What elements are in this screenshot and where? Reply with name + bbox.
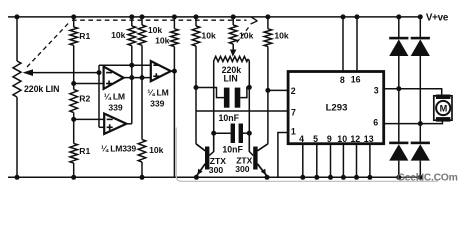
svg-text:220k LIN: 220k LIN [24,84,59,94]
wire node to R1 bottom [73,119,75,143]
node R1-R2 junction [71,81,76,86]
dashed gang link diagonal left [27,22,70,68]
transistor Q1 collector [196,144,205,151]
svg-text:10nF: 10nF [219,113,240,123]
wire D2 cathode lead [419,17,421,37]
node pin 9 ground junction [328,175,333,180]
wire R1R2 node to U1a noninverting input [74,83,104,85]
node col2 output row [140,75,145,80]
wire R1 to node [73,45,75,83]
node U1b output junction [172,69,177,74]
node wiper line junction [97,70,102,75]
node ground junction left pot [15,175,20,180]
node R2-R1 junction [71,117,76,122]
wire pin 5 ground lead [316,144,318,178]
wire pin 9 ground lead [330,144,332,178]
wire col6 top lead [267,17,269,29]
svg-text:10k: 10k [111,30,126,40]
svg-text:8: 8 [340,75,345,85]
wire D1 cathode lead [398,17,400,37]
resistor 10k col2 bottom [138,140,146,163]
wire pin6 row to motor [384,121,443,124]
wire U1c output to col1 [126,123,131,125]
wire col4 vertical [195,46,197,144]
wire col2 vertical [141,45,143,139]
wire col1 top lead [131,17,133,26]
potentiometer VR1 220k LIN body [13,61,21,97]
wire col6 vertical [267,47,269,144]
svg-text:339: 339 [108,102,123,112]
transistor Q1 emitter [196,164,205,178]
potentiometer VR1 wiper arrow [31,72,99,74]
wire D3 anode lead [398,161,400,178]
svg-text:2: 2 [291,86,296,96]
wire VR2 left end lead [213,59,216,152]
mid pot wiper arrow [230,50,236,57]
node top-rail junction left pot [15,14,20,19]
svg-text:300: 300 [209,165,224,175]
wire R2R1 node to U1c inverting input [74,118,105,120]
wire col3 top lead [173,17,175,29]
node pin6 diode junction [418,121,423,126]
svg-text:10k: 10k [149,145,164,155]
wire D1 anode lead [398,56,400,142]
node Q1 emitter ground junction [194,175,199,180]
svg-text:R1: R1 [79,146,90,156]
capacitor C2 right plate [239,124,243,144]
wire pin2 row [268,89,288,91]
dashed gang link horizontal [72,19,247,21]
capacitor C1 left plate [224,88,230,108]
diode D1 [389,37,408,40]
svg-text:R2: R2 [79,94,90,104]
svg-text:339: 339 [150,98,165,108]
dashed gang link end arrow [251,17,258,24]
svg-text:V+ve: V+ve [426,12,449,23]
op-amp U1a quarter LM339 [104,67,124,89]
diode D4 [411,142,430,145]
svg-text:12: 12 [350,134,360,144]
transistor Q1 base bar [205,147,209,170]
motor M1 body [434,96,452,120]
wire wiper bus to comp2 inverting row [99,64,151,66]
svg-text:10: 10 [337,134,347,144]
wire col2 top lead [141,17,143,25]
svg-text:300: 300 [235,164,250,174]
resistor 10k col2 top [138,25,146,45]
op-amp U1c quarter LM339 [104,114,126,134]
wire top V+ rail [8,16,420,18]
wire pin16 supply [356,17,358,72]
svg-text:5: 5 [313,134,318,144]
wire pin3 row to motor [384,89,442,95]
wire pin 13 ground lead [369,144,371,178]
node top-rail junction col1 [129,14,134,19]
node top-rail junction col2 [140,14,145,19]
node col6 pin2 row junction [265,88,270,93]
svg-text:13: 13 [364,134,374,144]
svg-text:10k: 10k [201,30,216,40]
resistor 10k col5 [229,25,237,44]
wire pin 10 ground lead [342,144,344,178]
node pin 12 ground junction [354,175,359,180]
svg-text:¼ LM: ¼ LM [147,88,168,98]
wire D4 anode lead [419,161,421,178]
wire R1 bottom lead [73,163,75,177]
wire col3 vertical [173,47,175,178]
node ground junction divider [71,175,76,180]
node top-rail junction col3 [172,14,177,19]
svg-text:9: 9 [327,134,332,144]
svg-text:GeekIC.COm: GeekIC.COm [397,173,458,184]
svg-text:¼ LM339: ¼ LM339 [101,144,136,154]
wire pin8 supply [342,17,344,72]
svg-text:3: 3 [374,86,379,96]
wire VR2 right end lead [248,59,249,152]
wire node to R2 [73,84,75,90]
wire col2 bottom lead [141,162,143,177]
node top-rail junction diode D1 [396,14,401,19]
wire U1b output stub [171,70,175,72]
svg-text:1: 1 [291,126,296,136]
svg-text:LIN: LIN [224,74,238,84]
transistor Q2 base lead [249,133,253,155]
node top-rail junction pin16 [355,14,360,19]
node Q2 emitter ground junction [265,175,270,180]
transistor Q2 base bar [253,147,257,170]
wire col4 top lead [195,17,197,26]
node top-rail junction pin8 [341,14,346,19]
node pin3 diode junction [396,86,401,91]
IC U2 L293 body [288,72,384,144]
resistor R1 top [70,27,78,45]
dashed gang link diagonal to mid pot [235,28,249,46]
svg-text:10k: 10k [239,30,254,40]
node pin 10 ground junction [341,175,346,180]
diode D2 [411,37,430,40]
node top-rail junction divider [71,14,76,19]
wire R2 to node [73,113,75,120]
wire row B right [242,132,249,134]
wire bottom ground rail [8,176,422,178]
wire col5 top lead [232,17,234,25]
node top-rail junction col4 [194,14,199,19]
resistor 10k col3 [171,29,179,47]
svg-text:16: 16 [351,75,361,85]
wire pin 12 ground lead [356,144,358,178]
node top-rail junction diode D2 [418,14,423,19]
resistor R2 [70,90,78,113]
diode D3 [389,142,408,145]
svg-text:10k: 10k [274,30,289,40]
node pin 13 ground junction [367,175,372,180]
node top-rail junction col5 [231,14,236,19]
potentiometer VR2 220k LIN body [215,56,249,61]
transistor Q2 collector [257,144,268,151]
transistor Q1 base lead [209,133,213,155]
wire left pot bottom lead [16,97,18,177]
capacitor C1 right plate [235,88,241,108]
wire wiper bus to U1c noninverting input [99,126,104,128]
wire col1 vertical [131,46,133,124]
resistor 10k col4 [192,26,200,46]
svg-text:M: M [440,104,448,114]
watermark stamp corner [176,128,438,182]
wire divider top lead [73,17,75,27]
wire row B left [214,132,231,134]
node pin 5 ground junction [314,175,319,180]
op-amp U1b quarter LM339 [151,61,171,81]
svg-text:L293: L293 [326,103,348,114]
wire col5 wiper lead [232,44,234,50]
node row B left junction [211,131,216,136]
svg-text:10k: 10k [148,25,163,35]
wire pin1 jog [278,133,288,178]
capacitor C2 left plate [231,124,235,144]
node ground junction D3 [396,175,401,180]
node top-rail junction col6 [265,14,270,19]
node ground junction D4 [418,175,423,180]
wire wiper bus vertical [98,65,100,127]
wire row A with C1 jogs [196,88,224,98]
wire U1a output row to U1b plus [124,77,151,79]
svg-text:R1: R1 [79,31,90,41]
node row B right junction [247,131,252,136]
svg-text:¼ LM: ¼ LM [104,91,125,101]
resistor 10k col1 [128,26,136,46]
wire D2 anode lead [419,56,421,142]
node pin 4 ground junction [300,175,305,180]
svg-text:10nF: 10nF [222,145,243,155]
node col1 comp2minus row [129,63,134,68]
resistor 10k col6 [264,29,272,47]
node col1 output row [129,75,134,80]
svg-text:4: 4 [299,134,304,144]
resistor R1 bottom [70,144,78,164]
svg-text:7: 7 [291,108,296,118]
wire pin7 row [196,110,288,112]
node ground junction col2 [140,175,145,180]
node C1 right lead junction [247,85,252,90]
svg-text:10k: 10k [155,36,170,46]
svg-text:6: 6 [373,118,378,128]
transistor Q2 emitter [257,164,267,178]
wire left pot top lead [16,17,18,61]
node col4 rowA junction [194,85,199,90]
wire pin 4 ground lead [302,144,304,178]
